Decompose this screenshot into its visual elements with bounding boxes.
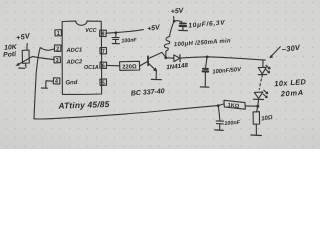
wire 220 ohm to base xyxy=(140,61,148,66)
LED D3 bottom lead xyxy=(257,100,260,106)
junction sense node (LED cathode / 10 ohm) xyxy=(256,105,259,108)
ground (C2) xyxy=(179,29,188,31)
junction output node xyxy=(206,56,209,59)
wire 1K to sense node xyxy=(245,105,257,107)
resistor R2 1K xyxy=(224,100,245,109)
resistor 220 ohm xyxy=(120,61,140,70)
wire potentiometer bottom to ground xyxy=(25,63,27,67)
diode D1 1N4148 anode wire xyxy=(166,57,174,59)
pin 1 xyxy=(55,30,62,36)
resistor R3 10 ohm xyxy=(253,112,260,125)
junction sense node (1K / 100nF) xyxy=(217,104,220,107)
LED D3 cathode bar xyxy=(253,98,263,100)
label 10x LED xyxy=(274,77,307,88)
capacitor C4 plates xyxy=(216,120,223,122)
LED D2 top lead xyxy=(262,60,264,67)
svg-text:5: 5 xyxy=(102,80,105,86)
wire +5V down to junction xyxy=(173,17,175,21)
pin label VCC xyxy=(85,28,96,34)
label 100nF (C4) xyxy=(224,120,241,127)
svg-text:20mA: 20mA xyxy=(280,88,305,99)
dashed wire (LED string continues) xyxy=(259,75,262,89)
pin 2 xyxy=(54,45,61,52)
junction +5V node xyxy=(173,20,176,23)
label ATtiny 45/85 xyxy=(57,99,110,111)
svg-text:1KΩ: 1KΩ xyxy=(227,103,240,110)
label 100uH /250mA min xyxy=(174,38,231,48)
LED D2 cathode bar xyxy=(258,74,266,76)
ground (potentiometer) xyxy=(19,67,25,69)
ground (pin 4) xyxy=(41,87,47,89)
label 1N4148 xyxy=(166,62,189,71)
svg-text:7: 7 xyxy=(102,49,105,55)
pin 4 xyxy=(53,78,60,84)
junction (VCC decoupling) xyxy=(115,31,118,34)
diode D1 cathode bar xyxy=(179,55,181,62)
pin label Gnd xyxy=(65,80,78,87)
svg-text:3: 3 xyxy=(56,58,59,64)
power +5V label (boost supply) xyxy=(170,7,185,15)
label 10K Poti xyxy=(3,44,18,59)
wire pin 8 VCC to +5V xyxy=(106,30,143,34)
LED D2 triangle xyxy=(258,67,266,74)
pin 7 xyxy=(100,47,107,54)
svg-text:220Ω: 220Ω xyxy=(122,64,137,70)
label +5V (VCC wire) xyxy=(147,24,162,33)
LED D2 emission arrows xyxy=(266,65,270,69)
pin 5 xyxy=(100,79,107,85)
svg-text:+5V: +5V xyxy=(170,7,185,15)
wire junction to inductor xyxy=(170,21,175,36)
svg-text:2: 2 xyxy=(56,47,59,53)
label BC 337-40 xyxy=(131,88,165,97)
svg-text:6: 6 xyxy=(102,63,105,69)
wire pin 4 to ground xyxy=(46,81,54,88)
wire sense junction to 1K xyxy=(218,104,224,106)
svg-text:Poti: Poti xyxy=(3,51,16,59)
ground (C1) xyxy=(112,43,119,45)
wire feedback: bottom rail to pin 2 ADC1 xyxy=(34,48,55,119)
power +5V label (potentiometer supply) xyxy=(15,31,31,42)
label ~30V with arrow xyxy=(281,43,302,55)
pin label ADC2 xyxy=(65,59,83,66)
ground (C3) xyxy=(200,86,209,88)
junction collector node xyxy=(164,56,167,59)
potentiometer 10K body xyxy=(22,50,29,63)
wire potentiometer wiper to pin 3 ADC2 xyxy=(33,57,55,60)
svg-text:ADC2: ADC2 xyxy=(65,59,83,66)
label 100nF (C1) xyxy=(121,37,137,44)
wire bottom rail (feedback to sense junction) xyxy=(34,106,218,119)
svg-text:4: 4 xyxy=(55,79,58,85)
capacitor C1 100nF plates xyxy=(112,37,119,39)
diode D1 triangle xyxy=(174,55,180,62)
ground (emitter) xyxy=(151,78,161,80)
svg-text:1: 1 xyxy=(57,31,60,37)
pin 8 xyxy=(100,30,107,37)
svg-text:100nF: 100nF xyxy=(224,120,241,127)
wire inductor to collector node xyxy=(165,51,167,57)
LED D3 triangle xyxy=(254,92,263,98)
transistor Q1 BC337-40 base bar xyxy=(147,56,149,65)
capacitor C4 100nF lead xyxy=(218,106,220,121)
svg-text:8: 8 xyxy=(102,31,105,37)
IC U1 ATtiny45/85 body xyxy=(62,21,102,94)
label 10 ohm xyxy=(261,115,273,123)
capacitor C3 plates xyxy=(203,68,208,70)
capacitor C3 100nF/50V lead xyxy=(206,57,207,68)
resistor R3 10 ohm lead xyxy=(257,106,258,111)
svg-text:VCC: VCC xyxy=(85,28,96,34)
pin label OC1A xyxy=(84,65,99,71)
svg-text:Gnd: Gnd xyxy=(65,80,78,87)
capacitor C1 100nF lead xyxy=(115,33,117,38)
transistor Q1 emitter xyxy=(148,63,156,79)
svg-text:ATtiny 45/85: ATtiny 45/85 xyxy=(57,99,110,111)
pin 6 xyxy=(100,62,107,68)
wire junction to capacitor C2 xyxy=(174,21,182,22)
inductor L1 100uH xyxy=(164,37,169,51)
svg-text:100nF: 100nF xyxy=(121,37,137,44)
label 10uF/6,3V xyxy=(188,19,226,29)
ground (C4) xyxy=(215,129,223,132)
svg-text:ADC1: ADC1 xyxy=(65,47,82,54)
wire diode to LED rail xyxy=(180,57,265,60)
svg-text:OC1A: OC1A xyxy=(84,65,99,71)
wire R3 to ground xyxy=(255,124,257,134)
transistor Q1 collector xyxy=(148,52,166,58)
LED D3 emission arrows xyxy=(264,90,268,93)
ground (R3) xyxy=(251,134,262,137)
label 100nF/50V xyxy=(212,67,242,76)
pin 3 xyxy=(54,57,61,63)
pin label ADC1 xyxy=(65,47,82,54)
label 20mA xyxy=(280,88,305,99)
potentiometer wiper arrow xyxy=(18,56,33,65)
wire +5V to potentiometer top xyxy=(26,44,28,51)
capacitor C2 10uF plates xyxy=(180,22,186,24)
wire pin 6 OC1A to R 220 xyxy=(107,64,120,66)
